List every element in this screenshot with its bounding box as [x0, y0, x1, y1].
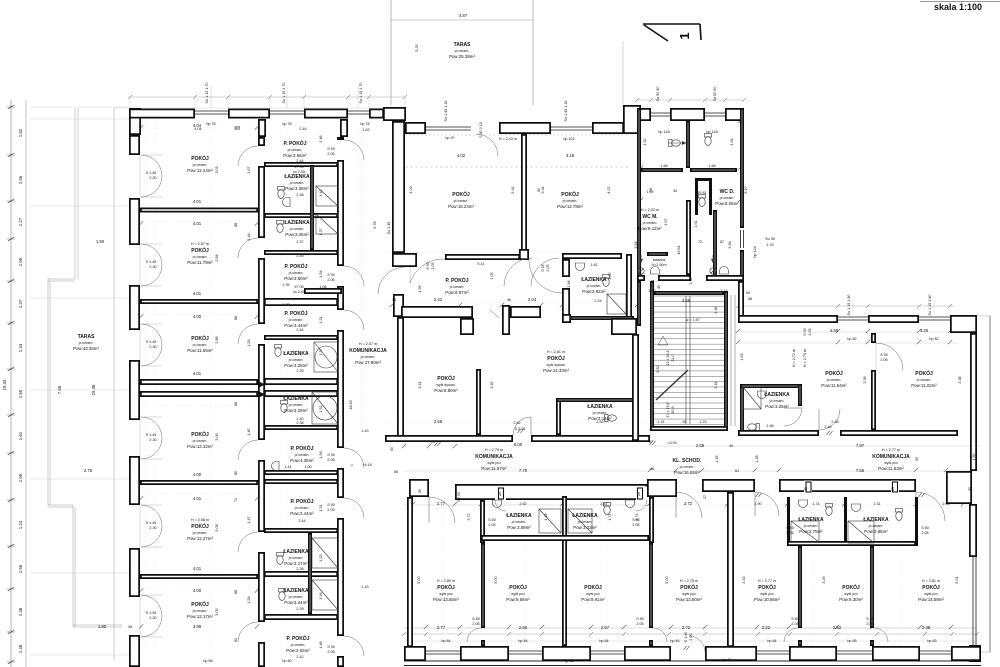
svg-text:vo 2.05: vo 2.05: [293, 290, 305, 294]
svg-text:88: 88: [234, 223, 238, 227]
svg-text:H = 2,81 m: H = 2,81 m: [922, 579, 940, 583]
svg-text:pl ceram.: pl ceram.: [295, 506, 310, 510]
svg-text:wyłś pcv: wyłś pcv: [924, 592, 938, 596]
svg-text:ścianka: ścianka: [653, 258, 666, 262]
svg-text:1.33: 1.33: [319, 554, 323, 561]
svg-text:ŁAZIENKA: ŁAZIENKA: [283, 396, 309, 402]
svg-text:S 90: S 90: [880, 353, 888, 357]
svg-text:71: 71: [234, 498, 238, 502]
svg-text:5.00: 5.00: [494, 576, 498, 583]
svg-text:38: 38: [128, 625, 132, 629]
svg-text:7.70: 7.70: [519, 468, 528, 473]
svg-text:1.61: 1.61: [694, 220, 698, 227]
svg-text:pl ceram.: pl ceram.: [587, 284, 602, 288]
svg-text:2.05: 2.05: [327, 458, 334, 462]
svg-text:2.30: 2.30: [149, 526, 156, 530]
svg-text:hp 82: hp 82: [847, 337, 856, 341]
svg-text:1.52: 1.52: [319, 405, 323, 412]
svg-text:pl ceram.: pl ceram.: [289, 358, 304, 362]
svg-text:wyłś pcv: wyłś pcv: [586, 592, 600, 596]
svg-text:58: 58: [237, 126, 241, 130]
svg-text:Pow:3.25m²: Pow:3.25m²: [284, 363, 308, 368]
svg-text:Pow:3.38m²: Pow:3.38m²: [285, 186, 309, 191]
svg-text:1.31: 1.31: [319, 504, 323, 511]
svg-text:POKÓJ: POKÓJ: [191, 154, 209, 162]
svg-text:H=1,90m: H=1,90m: [651, 263, 666, 267]
svg-text:4.00: 4.00: [193, 588, 202, 593]
svg-text:40: 40: [657, 285, 661, 289]
svg-text:17 x 15,6: 17 x 15,6: [666, 402, 670, 417]
svg-text:18.49: 18.49: [349, 400, 353, 409]
svg-text:Pow 3.09m²: Pow 3.09m²: [507, 525, 531, 530]
svg-text:Pow:14.58m²: Pow:14.58m²: [918, 597, 944, 602]
svg-text:2.05: 2.05: [327, 152, 334, 156]
svg-text:hp 145: hp 145: [658, 130, 669, 134]
svg-text:88: 88: [234, 590, 238, 594]
svg-text:Pow:3.85m²: Pow:3.85m²: [864, 529, 888, 534]
svg-text:2.38: 2.38: [296, 567, 303, 571]
svg-text:S 90: S 90: [327, 453, 335, 457]
svg-text:3-38: 3-38: [922, 625, 931, 630]
svg-text:88: 88: [234, 402, 238, 406]
svg-text:12 x 16,4: 12 x 16,4: [666, 350, 670, 365]
svg-text:3.33: 3.33: [742, 576, 746, 583]
svg-text:ŁAZIENKA: ŁAZIENKA: [283, 351, 309, 357]
svg-text:hp 84: hp 84: [670, 639, 679, 643]
svg-text:80: 80: [234, 471, 238, 475]
svg-text:Pow:11.55m²: Pow:11.55m²: [187, 348, 213, 353]
svg-text:2.58: 2.58: [682, 298, 691, 303]
svg-text:pl ceram.: pl ceram.: [869, 524, 884, 528]
svg-text:87: 87: [720, 240, 724, 244]
svg-text:15: 15: [682, 420, 686, 424]
svg-text:pl ceram.: pl ceram.: [770, 399, 785, 403]
svg-text:hp 78: hp 78: [282, 122, 291, 126]
svg-text:1.23: 1.23: [282, 303, 289, 307]
svg-text:2.45: 2.45: [296, 254, 303, 258]
svg-text:2.05: 2.05: [786, 531, 793, 535]
svg-text:2.31: 2.31: [873, 502, 880, 506]
svg-text:1.68: 1.68: [708, 164, 715, 168]
svg-text:2.44: 2.44: [299, 127, 306, 131]
svg-text:1.43: 1.43: [361, 585, 368, 589]
svg-text:Pow:8.80m²: Pow:8.80m²: [434, 388, 458, 393]
svg-text:wyłś pcv: wyłś pcv: [760, 592, 774, 596]
svg-text:72: 72: [698, 240, 702, 244]
svg-text:ŁAZIENKA: ŁAZIENKA: [581, 277, 607, 283]
svg-text:wyłś pcv: wyłś pcv: [682, 592, 696, 596]
svg-text:POKÓJ: POKÓJ: [191, 246, 209, 254]
svg-text:P. POKÓJ: P. POKÓJ: [446, 276, 469, 284]
svg-text:Pow:25.39m²: Pow:25.39m²: [449, 54, 475, 59]
svg-text:Pow:9.87m²: Pow:9.87m²: [445, 290, 469, 295]
svg-text:wyłś dywan.: wyłś dywan.: [436, 383, 455, 387]
svg-text:Pow 27.80m²: Pow 27.80m²: [355, 360, 381, 365]
svg-text:pl ceram.: pl ceram.: [804, 524, 819, 528]
svg-text:3.38: 3.38: [863, 376, 867, 383]
svg-text:So 1.45 1.15: So 1.45 1.15: [444, 101, 448, 122]
svg-text:3.05: 3.05: [215, 608, 219, 615]
svg-text:P. POKÓJ: P. POKÓJ: [291, 444, 314, 452]
svg-text:2.05: 2.05: [327, 278, 334, 282]
svg-text:1.39: 1.39: [282, 283, 289, 287]
svg-text:1.61: 1.61: [590, 263, 597, 267]
svg-text:3.72: 3.72: [467, 513, 471, 520]
svg-text:TARAS: TARAS: [78, 334, 96, 340]
svg-text:2.84: 2.84: [215, 254, 219, 261]
svg-text:1.71: 1.71: [608, 513, 612, 520]
svg-text:6.78: 6.78: [373, 221, 377, 228]
svg-text:1.90: 1.90: [98, 624, 107, 629]
svg-text:1.43: 1.43: [361, 429, 368, 433]
svg-text:50: 50: [968, 487, 972, 491]
svg-text:S 90 2.15: S 90 2.15: [479, 122, 483, 138]
svg-text:2.24: 2.24: [594, 299, 601, 303]
svg-text:Pow:3.53m²: Pow:3.53m²: [286, 648, 310, 653]
svg-text:pl ceram.: pl ceram.: [578, 520, 593, 524]
svg-text:2.53: 2.53: [596, 420, 603, 424]
svg-text:Pow:9.91m²: Pow:9.91m²: [581, 597, 605, 602]
svg-text:4.01: 4.01: [193, 291, 202, 296]
svg-text:pl ceram.: pl ceram.: [193, 163, 208, 167]
svg-text:hp 61: hp 61: [722, 658, 731, 662]
svg-text:pl ceram.: pl ceram.: [193, 609, 208, 613]
svg-text:2.67: 2.67: [600, 502, 607, 506]
svg-text:4.01: 4.01: [193, 566, 202, 571]
svg-text:S 60: S 60: [921, 526, 929, 530]
svg-text:hp 97: hp 97: [445, 136, 454, 140]
svg-text:POKÓJ: POKÓJ: [922, 583, 940, 591]
svg-text:POKÓJ: POKÓJ: [547, 354, 565, 362]
svg-text:3.26: 3.26: [920, 328, 929, 333]
svg-text:vo 2.05: vo 2.05: [293, 170, 305, 174]
svg-text:TARAS: TARAS: [454, 42, 472, 48]
svg-text:Pow:11.63m²: Pow:11.63m²: [878, 466, 904, 471]
svg-text:1.27: 1.27: [18, 217, 23, 226]
svg-text:49 81: 49 81: [697, 191, 706, 195]
svg-text:So 1.15 1.90: So 1.15 1.90: [928, 295, 932, 316]
svg-text:Pow:12.78m²: Pow:12.78m²: [557, 204, 583, 209]
svg-text:1.64: 1.64: [740, 353, 744, 360]
svg-text:1.45: 1.45: [715, 455, 719, 462]
svg-text:1.71: 1.71: [720, 289, 727, 293]
svg-text:1.67: 1.67: [247, 166, 251, 173]
svg-text:hp 85: hp 85: [847, 639, 856, 643]
svg-text:ŁAZIENKA: ŁAZIENKA: [798, 517, 824, 523]
svg-text:hp 61: hp 61: [564, 659, 573, 663]
svg-text:POKÓJ: POKÓJ: [584, 583, 602, 591]
svg-text:1.37: 1.37: [319, 228, 323, 235]
svg-text:3.54: 3.54: [634, 241, 638, 248]
svg-text:4.01: 4.01: [193, 496, 202, 501]
svg-text:So 1.15 1.70: So 1.15 1.70: [205, 83, 209, 104]
svg-text:S 80: S 80: [636, 617, 644, 621]
svg-text:ŁAZIENKA: ŁAZIENKA: [506, 513, 532, 519]
svg-text:So 1.45 1.15: So 1.45 1.15: [564, 101, 568, 122]
svg-text:3.41: 3.41: [714, 381, 718, 388]
svg-text:38: 38: [392, 298, 396, 302]
svg-text:pl ceram.: pl ceram.: [361, 355, 376, 359]
svg-text:2.46: 2.46: [824, 425, 831, 429]
svg-text:S 60: S 60: [786, 526, 794, 530]
svg-text:1.54: 1.54: [319, 451, 323, 458]
svg-text:1.55: 1.55: [18, 564, 23, 573]
svg-text:pl ceram.: pl ceram.: [291, 643, 306, 647]
svg-text:hp 84: hp 84: [518, 639, 527, 643]
svg-text:POKÓJ: POKÓJ: [825, 369, 843, 377]
svg-text:pl ceram.: pl ceram.: [295, 453, 310, 457]
svg-text:Pow:11.57m²: Pow:11.57m²: [481, 466, 507, 471]
svg-text:2.38: 2.38: [296, 421, 303, 425]
svg-text:ŁAZIENKA: ŁAZIENKA: [863, 517, 889, 523]
svg-text:4.59: 4.59: [830, 328, 839, 333]
svg-text:wyłś pcv: wyłś pcv: [844, 592, 858, 596]
svg-text:1.55: 1.55: [18, 389, 23, 398]
svg-text:2.05: 2.05: [921, 531, 928, 535]
svg-text:63: 63: [234, 638, 238, 642]
svg-text:1.21: 1.21: [657, 420, 664, 424]
svg-text:2.38: 2.38: [296, 193, 303, 197]
svg-text:POKÓJ: POKÓJ: [842, 583, 860, 591]
svg-text:2.01: 2.01: [942, 502, 949, 506]
svg-text:5.41: 5.41: [477, 262, 484, 266]
svg-text:1.55: 1.55: [18, 257, 23, 266]
svg-text:2.05: 2.05: [327, 508, 334, 512]
svg-text:2.30: 2.30: [149, 176, 156, 180]
svg-text:+4.16: +4.16: [362, 463, 371, 467]
svg-text:27: 27: [649, 440, 653, 444]
svg-text:pl ceram.: pl ceram.: [454, 199, 469, 203]
svg-text:Pow:4.35m²: Pow:4.35m²: [290, 458, 314, 463]
svg-text:2.05: 2.05: [488, 523, 495, 527]
svg-text:1: 1: [677, 32, 692, 39]
svg-text:97 05: 97 05: [294, 165, 303, 169]
svg-text:7.97: 7.97: [856, 443, 865, 448]
svg-text:Pow:2.75m²: Pow:2.75m²: [799, 529, 823, 534]
svg-text:S 90: S 90: [426, 262, 430, 270]
svg-text:1.06: 1.06: [319, 285, 326, 289]
svg-text:4.01: 4.01: [193, 199, 202, 204]
svg-text:1.46: 1.46: [319, 135, 323, 142]
svg-text:H = 2,02 m: H = 2,02 m: [641, 208, 659, 212]
svg-text:25: 25: [804, 487, 808, 491]
svg-text:pl ceram.: pl ceram.: [193, 531, 208, 535]
svg-text:POKÓJ: POKÓJ: [680, 583, 698, 591]
svg-text:P. POKÓJ: P. POKÓJ: [285, 309, 308, 317]
svg-text:Pow:12.32m²: Pow:12.32m²: [187, 444, 213, 449]
svg-text:2.44: 2.44: [296, 328, 303, 332]
svg-text:S 80: S 80: [472, 617, 480, 621]
svg-text:4.04: 4.04: [194, 127, 201, 131]
svg-text:S 90: S 90: [541, 264, 545, 272]
svg-text:1.61: 1.61: [18, 431, 23, 440]
svg-text:7.69: 7.69: [57, 385, 62, 394]
svg-text:2.30: 2.30: [149, 345, 156, 349]
svg-text:pl ceram.: pl ceram.: [290, 181, 305, 185]
svg-text:2.05: 2.05: [689, 633, 693, 640]
svg-text:1.47: 1.47: [247, 516, 251, 523]
svg-text:wyłś dywan.: wyłś dywan.: [546, 363, 565, 367]
svg-text:hp 84: hp 84: [599, 639, 608, 643]
svg-text:1.54: 1.54: [730, 138, 734, 145]
svg-text:1.05: 1.05: [490, 272, 494, 279]
svg-text:2.05: 2.05: [327, 650, 334, 654]
svg-text:2.58: 2.58: [434, 419, 443, 424]
svg-text:P. POKÓJ: P. POKÓJ: [287, 634, 310, 642]
svg-text:hp 56: hp 56: [203, 659, 212, 663]
svg-text:POKÓJ: POKÓJ: [509, 583, 527, 591]
svg-text:skala 1:100: skala 1:100: [934, 2, 982, 12]
svg-text:2.05: 2.05: [431, 262, 435, 269]
svg-text:48: 48: [650, 467, 654, 471]
svg-text:pl ceram.: pl ceram.: [289, 271, 304, 275]
svg-text:Pow:11.64m²: Pow:11.64m²: [821, 383, 847, 388]
svg-text:1.42: 1.42: [319, 189, 323, 196]
svg-text:2.62: 2.62: [519, 502, 526, 506]
svg-text:pl ceram.: pl ceram.: [720, 196, 735, 200]
svg-text:30,9: 30,9: [671, 406, 675, 413]
svg-text:2.48: 2.48: [831, 420, 838, 424]
svg-text:Pow:14.33m²: Pow:14.33m²: [543, 368, 569, 373]
svg-text:1.62: 1.62: [18, 128, 23, 137]
svg-text:2.52: 2.52: [833, 625, 842, 630]
svg-text:2.04: 2.04: [528, 297, 537, 302]
svg-text:hp 124: hp 124: [753, 246, 757, 257]
svg-text:POKÓJ: POKÓJ: [561, 190, 579, 198]
svg-text:1.24: 1.24: [18, 520, 23, 529]
svg-text:P. POKÓJ: P. POKÓJ: [285, 262, 308, 270]
svg-text:1.68: 1.68: [660, 164, 667, 168]
svg-text:4.04: 4.04: [409, 186, 413, 193]
svg-text:ŁAZIENKA: ŁAZIENKA: [284, 174, 310, 180]
svg-text:wyłś pcv: wyłś pcv: [511, 592, 525, 596]
svg-text:hp 78: hp 78: [206, 122, 215, 126]
svg-text:S 1.90: S 1.90: [684, 632, 688, 643]
svg-text:hp 83: hp 83: [927, 639, 936, 643]
svg-text:5.00: 5.00: [665, 576, 669, 583]
svg-text:Pow:16.24m²: Pow:16.24m²: [448, 204, 474, 209]
svg-text:90: 90: [915, 457, 919, 461]
svg-text:5.01: 5.01: [955, 576, 959, 583]
svg-text:S 90: S 90: [327, 645, 335, 649]
svg-text:1.40: 1.40: [247, 428, 251, 435]
svg-text:58: 58: [748, 297, 752, 301]
svg-text:2.72: 2.72: [684, 501, 693, 506]
svg-text:Pow:11.02m²: Pow:11.02m²: [911, 383, 937, 388]
svg-text:pl ceram.: pl ceram.: [290, 227, 305, 231]
svg-text:2.88: 2.88: [215, 336, 219, 343]
svg-text:3.29: 3.29: [822, 576, 826, 583]
svg-text:hp 101: hp 101: [563, 137, 574, 141]
svg-text:pl ceram.: pl ceram.: [455, 49, 470, 53]
svg-text:25: 25: [891, 487, 895, 491]
svg-text:S 80: S 80: [866, 617, 874, 621]
svg-text:POKÓJ: POKÓJ: [191, 334, 209, 342]
svg-text:27: 27: [703, 495, 707, 499]
svg-text:2.59: 2.59: [696, 443, 705, 448]
svg-text:Pow:43.36m²: Pow:43.36m²: [73, 346, 99, 351]
svg-text:25: 25: [498, 492, 502, 496]
svg-text:5.25: 5.25: [415, 44, 419, 51]
svg-text:Pow:3.44m²: Pow:3.44m²: [290, 511, 314, 516]
svg-text:5.41: 5.41: [511, 186, 515, 193]
svg-text:So 1.15 1.90: So 1.15 1.90: [847, 295, 851, 316]
svg-text:<3.94: <3.94: [667, 441, 676, 445]
svg-text:hp 145: hp 145: [706, 130, 717, 134]
svg-text:2.05: 2.05: [636, 622, 643, 626]
svg-text:S 90: S 90: [327, 503, 335, 507]
svg-text:1.84: 1.84: [567, 280, 571, 287]
svg-text:96: 96: [507, 298, 511, 302]
svg-text:Sa 50 90: Sa 50 90: [656, 87, 660, 102]
svg-text:ŁAZIENKA: ŁAZIENKA: [283, 588, 309, 594]
svg-text:KOMUNIKACJA: KOMUNIKACJA: [872, 454, 910, 460]
svg-text:1.96: 1.96: [766, 424, 773, 428]
svg-text:Pow:3.29m²: Pow:3.29m²: [284, 408, 308, 413]
svg-text:50: 50: [390, 447, 394, 451]
svg-text:wyłś pcv: wyłś pcv: [487, 461, 501, 465]
svg-text:S 80: S 80: [791, 617, 799, 621]
svg-text:3.38: 3.38: [958, 376, 962, 383]
svg-text:POKÓJ: POKÓJ: [437, 374, 455, 382]
svg-text:pl ceram.: pl ceram.: [643, 221, 658, 225]
svg-text:ŁAZIENKA: ŁAZIENKA: [283, 549, 309, 555]
svg-text:WC M.: WC M.: [642, 214, 658, 220]
svg-text:1.44: 1.44: [319, 592, 323, 599]
svg-text:1.48: 1.48: [18, 607, 23, 616]
svg-text:58: 58: [649, 188, 653, 192]
svg-text:1.31: 1.31: [319, 316, 323, 323]
svg-text:pl ceram.: pl ceram.: [193, 343, 208, 347]
svg-text:1.44: 1.44: [247, 233, 251, 240]
svg-text:61: 61: [735, 469, 739, 473]
svg-text:So 1.15 1.70: So 1.15 1.70: [282, 83, 286, 104]
svg-text:1.63: 1.63: [362, 128, 369, 132]
svg-text:POKÓJ: POKÓJ: [437, 583, 455, 591]
svg-text:S 60: S 60: [488, 518, 496, 522]
svg-text:Pow:13.60m²: Pow:13.60m²: [676, 597, 702, 602]
svg-text:H = 2,72 m: H = 2,72 m: [792, 349, 796, 367]
svg-text:Pow:8.05m²: Pow:8.05m²: [715, 201, 739, 206]
svg-text:2.05: 2.05: [791, 622, 798, 626]
svg-text:2.42: 2.42: [296, 655, 303, 659]
svg-text:S 1.45: S 1.45: [146, 260, 157, 264]
svg-text:H = 2,80 m: H = 2,80 m: [437, 579, 455, 583]
svg-text:2.22: 2.22: [762, 625, 771, 630]
svg-text:Pow:11.79m²: Pow:11.79m²: [187, 260, 213, 265]
svg-text:H = 2,77 m: H = 2,77 m: [758, 579, 776, 583]
svg-text:Pow:9.56m²: Pow:9.56m²: [506, 597, 530, 602]
svg-text:1.54: 1.54: [319, 270, 323, 277]
svg-text:S2.05: S2.05: [457, 492, 461, 502]
svg-text:1.48: 1.48: [319, 641, 323, 648]
svg-text:H = 2,75 m: H = 2,75 m: [680, 579, 698, 583]
svg-text:So 1.15 1.70: So 1.15 1.70: [359, 83, 363, 104]
svg-text:KL. SCHOD.: KL. SCHOD.: [673, 458, 703, 464]
svg-text:2.62: 2.62: [513, 421, 520, 425]
svg-text:2.05: 2.05: [472, 622, 479, 626]
svg-text:S 1.45: S 1.45: [146, 433, 157, 437]
svg-text:Pow:12.24m²: Pow:12.24m²: [187, 168, 213, 173]
svg-text:1.48: 1.48: [18, 644, 23, 653]
svg-text:pl ceram.: pl ceram.: [917, 378, 932, 382]
svg-text:1.52: 1.52: [643, 138, 647, 145]
svg-text:POKÓJ: POKÓJ: [191, 600, 209, 608]
svg-text:1.55: 1.55: [18, 473, 23, 482]
svg-text:pl ceram.: pl ceram.: [563, 199, 578, 203]
svg-text:2.39: 2.39: [296, 369, 303, 373]
svg-text:KOMUNIKACJA: KOMUNIKACJA: [475, 454, 513, 460]
